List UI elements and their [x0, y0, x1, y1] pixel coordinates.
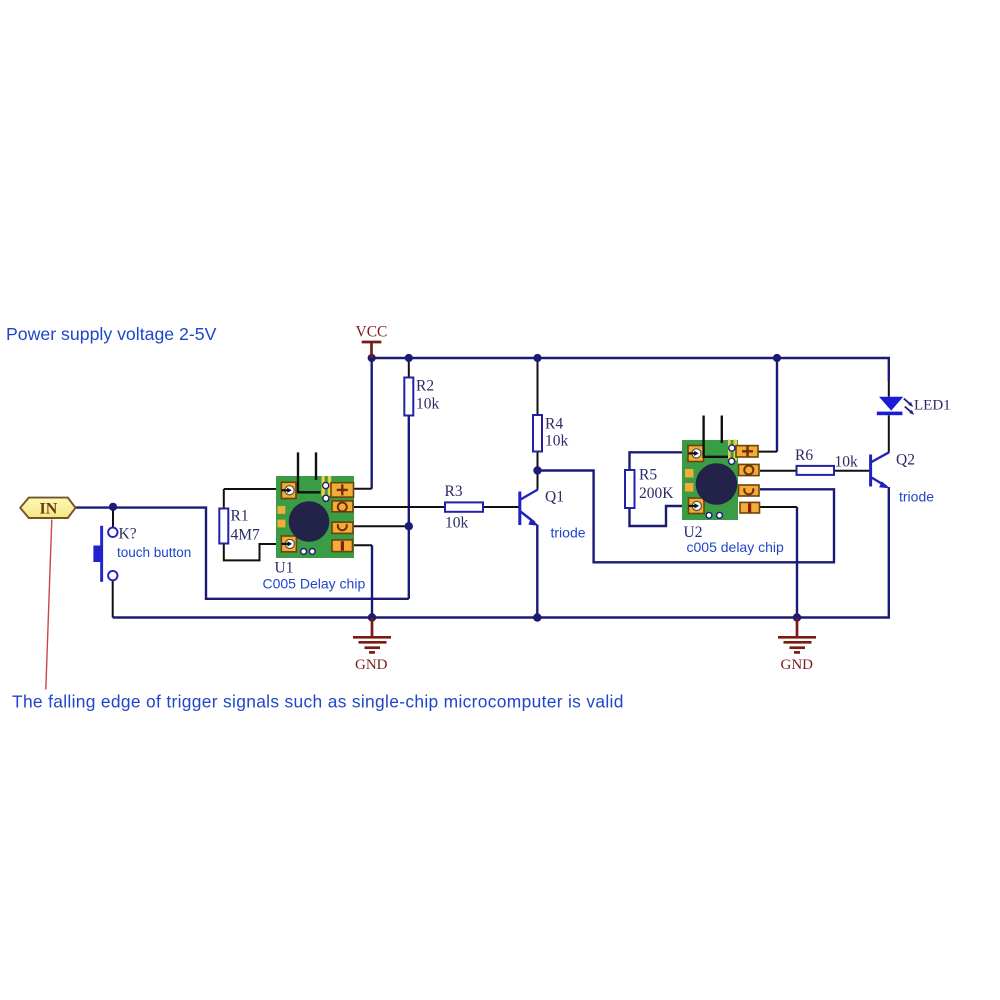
svg-text:triode: triode: [551, 524, 586, 540]
svg-text:GND: GND: [781, 657, 814, 673]
svg-text:R2: R2: [416, 378, 434, 395]
svg-text:R1: R1: [231, 507, 249, 524]
svg-text:R3: R3: [445, 483, 463, 500]
svg-text:VCC: VCC: [356, 324, 388, 341]
svg-text:4M7: 4M7: [231, 527, 261, 544]
svg-text:10k: 10k: [545, 433, 569, 450]
svg-text:C005 Delay chip: C005 Delay chip: [263, 576, 366, 592]
svg-text:10k: 10k: [416, 396, 440, 413]
svg-text:LED1: LED1: [914, 398, 951, 414]
svg-text:R4: R4: [545, 415, 563, 432]
svg-text:IN: IN: [40, 500, 58, 517]
svg-text:K?: K?: [119, 526, 137, 543]
svg-text:The falling edge of trigger si: The falling edge of trigger signals such…: [12, 692, 624, 712]
svg-text:R6: R6: [795, 447, 813, 464]
svg-text:R5: R5: [639, 467, 657, 484]
svg-text:10k: 10k: [445, 515, 469, 532]
svg-text:triode: triode: [899, 489, 934, 505]
svg-text:c005 delay chip: c005 delay chip: [687, 539, 785, 555]
svg-text:10k: 10k: [835, 454, 859, 471]
svg-text:Power supply voltage 2-5V: Power supply voltage 2-5V: [6, 324, 217, 344]
svg-text:U1: U1: [275, 560, 294, 577]
svg-text:Q1: Q1: [545, 488, 564, 505]
svg-text:Q2: Q2: [896, 452, 915, 469]
svg-text:GND: GND: [355, 657, 388, 673]
svg-text:200K: 200K: [639, 485, 674, 502]
svg-text:touch button: touch button: [117, 545, 191, 560]
